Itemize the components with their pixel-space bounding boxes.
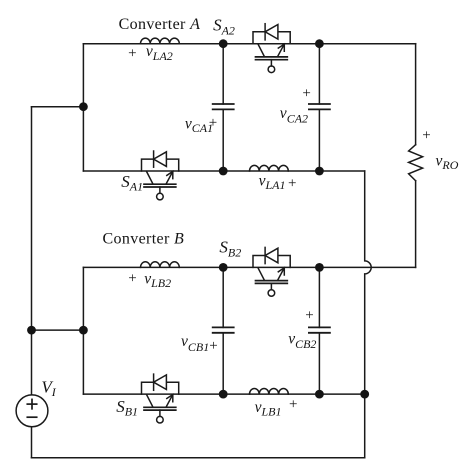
label v_CA1 +	[185, 115, 217, 135]
wire: converter B middle rail y=394.1	[83, 393, 364, 395]
capacitor CA2 plates	[309, 104, 330, 109]
svg-text:+: +	[302, 86, 310, 102]
transistor S_B2 (IGBT with antiparallel diode)	[253, 247, 290, 296]
wire: link from left rail to converter A input y=106.7	[32, 106, 84, 108]
capacitor CB1 plates	[213, 327, 234, 332]
svg-text:+: +	[305, 308, 313, 324]
svg-text:vRO: vRO	[436, 153, 459, 173]
svg-text:vCB1: vCB1	[181, 333, 209, 354]
capacitor CA2 top lead	[318, 44, 320, 104]
wire: left rail from A link down to source V_I top	[31, 107, 33, 395]
svg-text:Converter A: Converter A	[119, 16, 201, 33]
label v_LB1 +	[255, 397, 298, 419]
inductor LA2	[141, 38, 180, 44]
svg-text:+: +	[422, 128, 430, 144]
capacitor CA2 bottom lead	[318, 109, 320, 171]
wire: right rail bottom segment x=415.6 (resistor to B output link)	[415, 181, 417, 268]
wire: vertical x=364.7 from A middle rail with hop over B top rail	[365, 171, 372, 458]
svg-text:vCA2: vCA2	[280, 105, 308, 126]
svg-text:+: +	[209, 338, 217, 354]
capacitor CA1 plates	[213, 104, 234, 109]
svg-text:vLA1: vLA1	[259, 172, 286, 192]
transistor S_B1 (IGBT with antiparallel diode)	[142, 374, 179, 423]
node S_B2 left (top of CB1)	[219, 263, 228, 272]
svg-text:vLB2: vLB2	[144, 270, 171, 290]
node: left rail to converter B junction	[27, 326, 36, 335]
node S_A2 left (top of CA1)	[219, 39, 228, 48]
capacitor CB2 plates	[309, 327, 330, 332]
wire: converter A top rail y=43.7	[83, 43, 415, 45]
transistor S_A1 (IGBT with antiparallel diode)	[142, 151, 179, 200]
svg-text:Converter B: Converter B	[103, 231, 185, 248]
node: B middle rail to return vertical	[360, 390, 369, 399]
svg-text:vLB1: vLB1	[255, 399, 282, 419]
label + v_LB2	[128, 270, 171, 290]
svg-text:vLA2: vLA2	[146, 43, 173, 63]
node: converter A input junction	[79, 102, 88, 111]
node: CB2 bottom on B middle rail	[315, 390, 324, 399]
capacitor CB1 bottom lead	[222, 333, 224, 394]
capacitor CB2 top lead	[318, 267, 320, 327]
inductor LB2	[141, 262, 180, 268]
capacitor CA1 bottom lead	[222, 109, 224, 171]
node: converter B input junction	[79, 326, 88, 335]
svg-text:+: +	[289, 397, 297, 413]
wire: converter A input vertical x=83.4	[82, 44, 84, 171]
wire: converter B input vertical x=83.4	[82, 267, 84, 394]
svg-text:SB1: SB1	[116, 397, 138, 419]
transistor S_A2 (IGBT with antiparallel diode)	[253, 24, 290, 73]
wire: bottom return rail y=457.7	[32, 457, 365, 459]
svg-text:+: +	[288, 176, 296, 192]
capacitor CA1 top lead	[222, 44, 224, 104]
node: CB1 bottom on B middle rail	[219, 390, 228, 399]
label v_LA1 +	[259, 172, 297, 192]
svg-text:+: +	[209, 115, 217, 131]
capacitor CB2 bottom lead	[318, 333, 320, 394]
label + v_LA2	[128, 43, 173, 63]
voltage source V_I	[16, 395, 48, 427]
svg-text:+: +	[128, 271, 136, 287]
svg-text:VI: VI	[41, 378, 56, 399]
resistor RO	[409, 145, 423, 181]
svg-text:SA2: SA2	[213, 16, 235, 38]
svg-text:SA1: SA1	[121, 172, 143, 194]
node S_B2 right (top of CB2)	[315, 263, 324, 272]
wire: converter B top rail y=267.4 (runs to right rail)	[83, 266, 415, 268]
label v_CB1 +	[181, 333, 218, 354]
inductor LB1	[250, 389, 289, 395]
svg-text:+: +	[128, 46, 136, 62]
node: CA2 bottom on A middle rail	[315, 167, 324, 176]
svg-text:SB2: SB2	[219, 238, 241, 260]
inductor LA1	[250, 165, 289, 171]
wire: converter A middle rail y=171	[83, 170, 364, 172]
wire: link from left rail to converter B input y=330.1	[32, 329, 84, 331]
node: CA1 bottom on A middle rail	[219, 167, 228, 176]
wire: source bottom lead	[31, 427, 33, 458]
wire: right rail top segment x=415.6 (A top to resistor)	[415, 44, 417, 145]
capacitor CB1 top lead	[222, 267, 224, 327]
node S_A2 right (top of CA2)	[315, 39, 324, 48]
